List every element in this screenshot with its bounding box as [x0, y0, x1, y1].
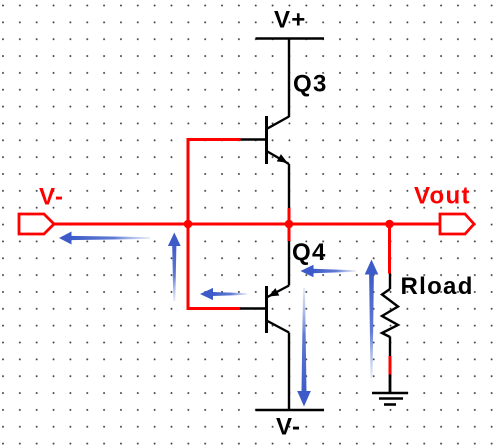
wire	[187, 140, 190, 225]
ground	[372, 375, 408, 405]
port V-	[19, 214, 54, 234]
wire	[54, 223, 188, 226]
svg-text:Vout: Vout	[414, 183, 471, 210]
power rail V+	[256, 37, 325, 39]
wire	[187, 138, 241, 141]
current arrow 5 (up, Rload)	[365, 260, 379, 379]
junction	[184, 220, 193, 229]
wire	[390, 223, 441, 226]
wire	[288, 208, 291, 224]
resistor Rload	[382, 274, 398, 357]
wire	[288, 39, 290, 118]
wire	[288, 224, 291, 242]
port Vout	[440, 214, 474, 234]
wire	[288, 164, 290, 208]
svg-text:V+: V+	[274, 7, 307, 34]
current arrow 6 (down, Q4 collector to V-)	[297, 288, 311, 407]
svg-text:Q3: Q3	[293, 71, 328, 98]
current arrow 2 (up, left branch)	[168, 233, 181, 302]
current arrow 3 (left, Q4 base)	[200, 288, 247, 300]
junction	[385, 220, 394, 229]
power rail V-	[256, 409, 325, 411]
wire	[389, 356, 392, 375]
wire	[188, 223, 289, 226]
transistor Q4	[240, 241, 289, 333]
wire	[289, 223, 390, 226]
junction	[285, 220, 294, 229]
current arrow 4 (left, Q4 emitter)	[301, 265, 357, 278]
wire	[288, 333, 290, 411]
wire	[187, 307, 241, 310]
svg-text:V-: V-	[39, 184, 64, 211]
wire	[388, 224, 391, 274]
current arrow 1 (left, output wire)	[59, 232, 150, 245]
transistor Q3	[240, 116, 290, 166]
svg-text:Q4: Q4	[292, 239, 327, 266]
wire	[187, 224, 190, 309]
svg-text:Rload: Rload	[401, 273, 474, 300]
svg-text:V-: V-	[276, 414, 301, 441]
